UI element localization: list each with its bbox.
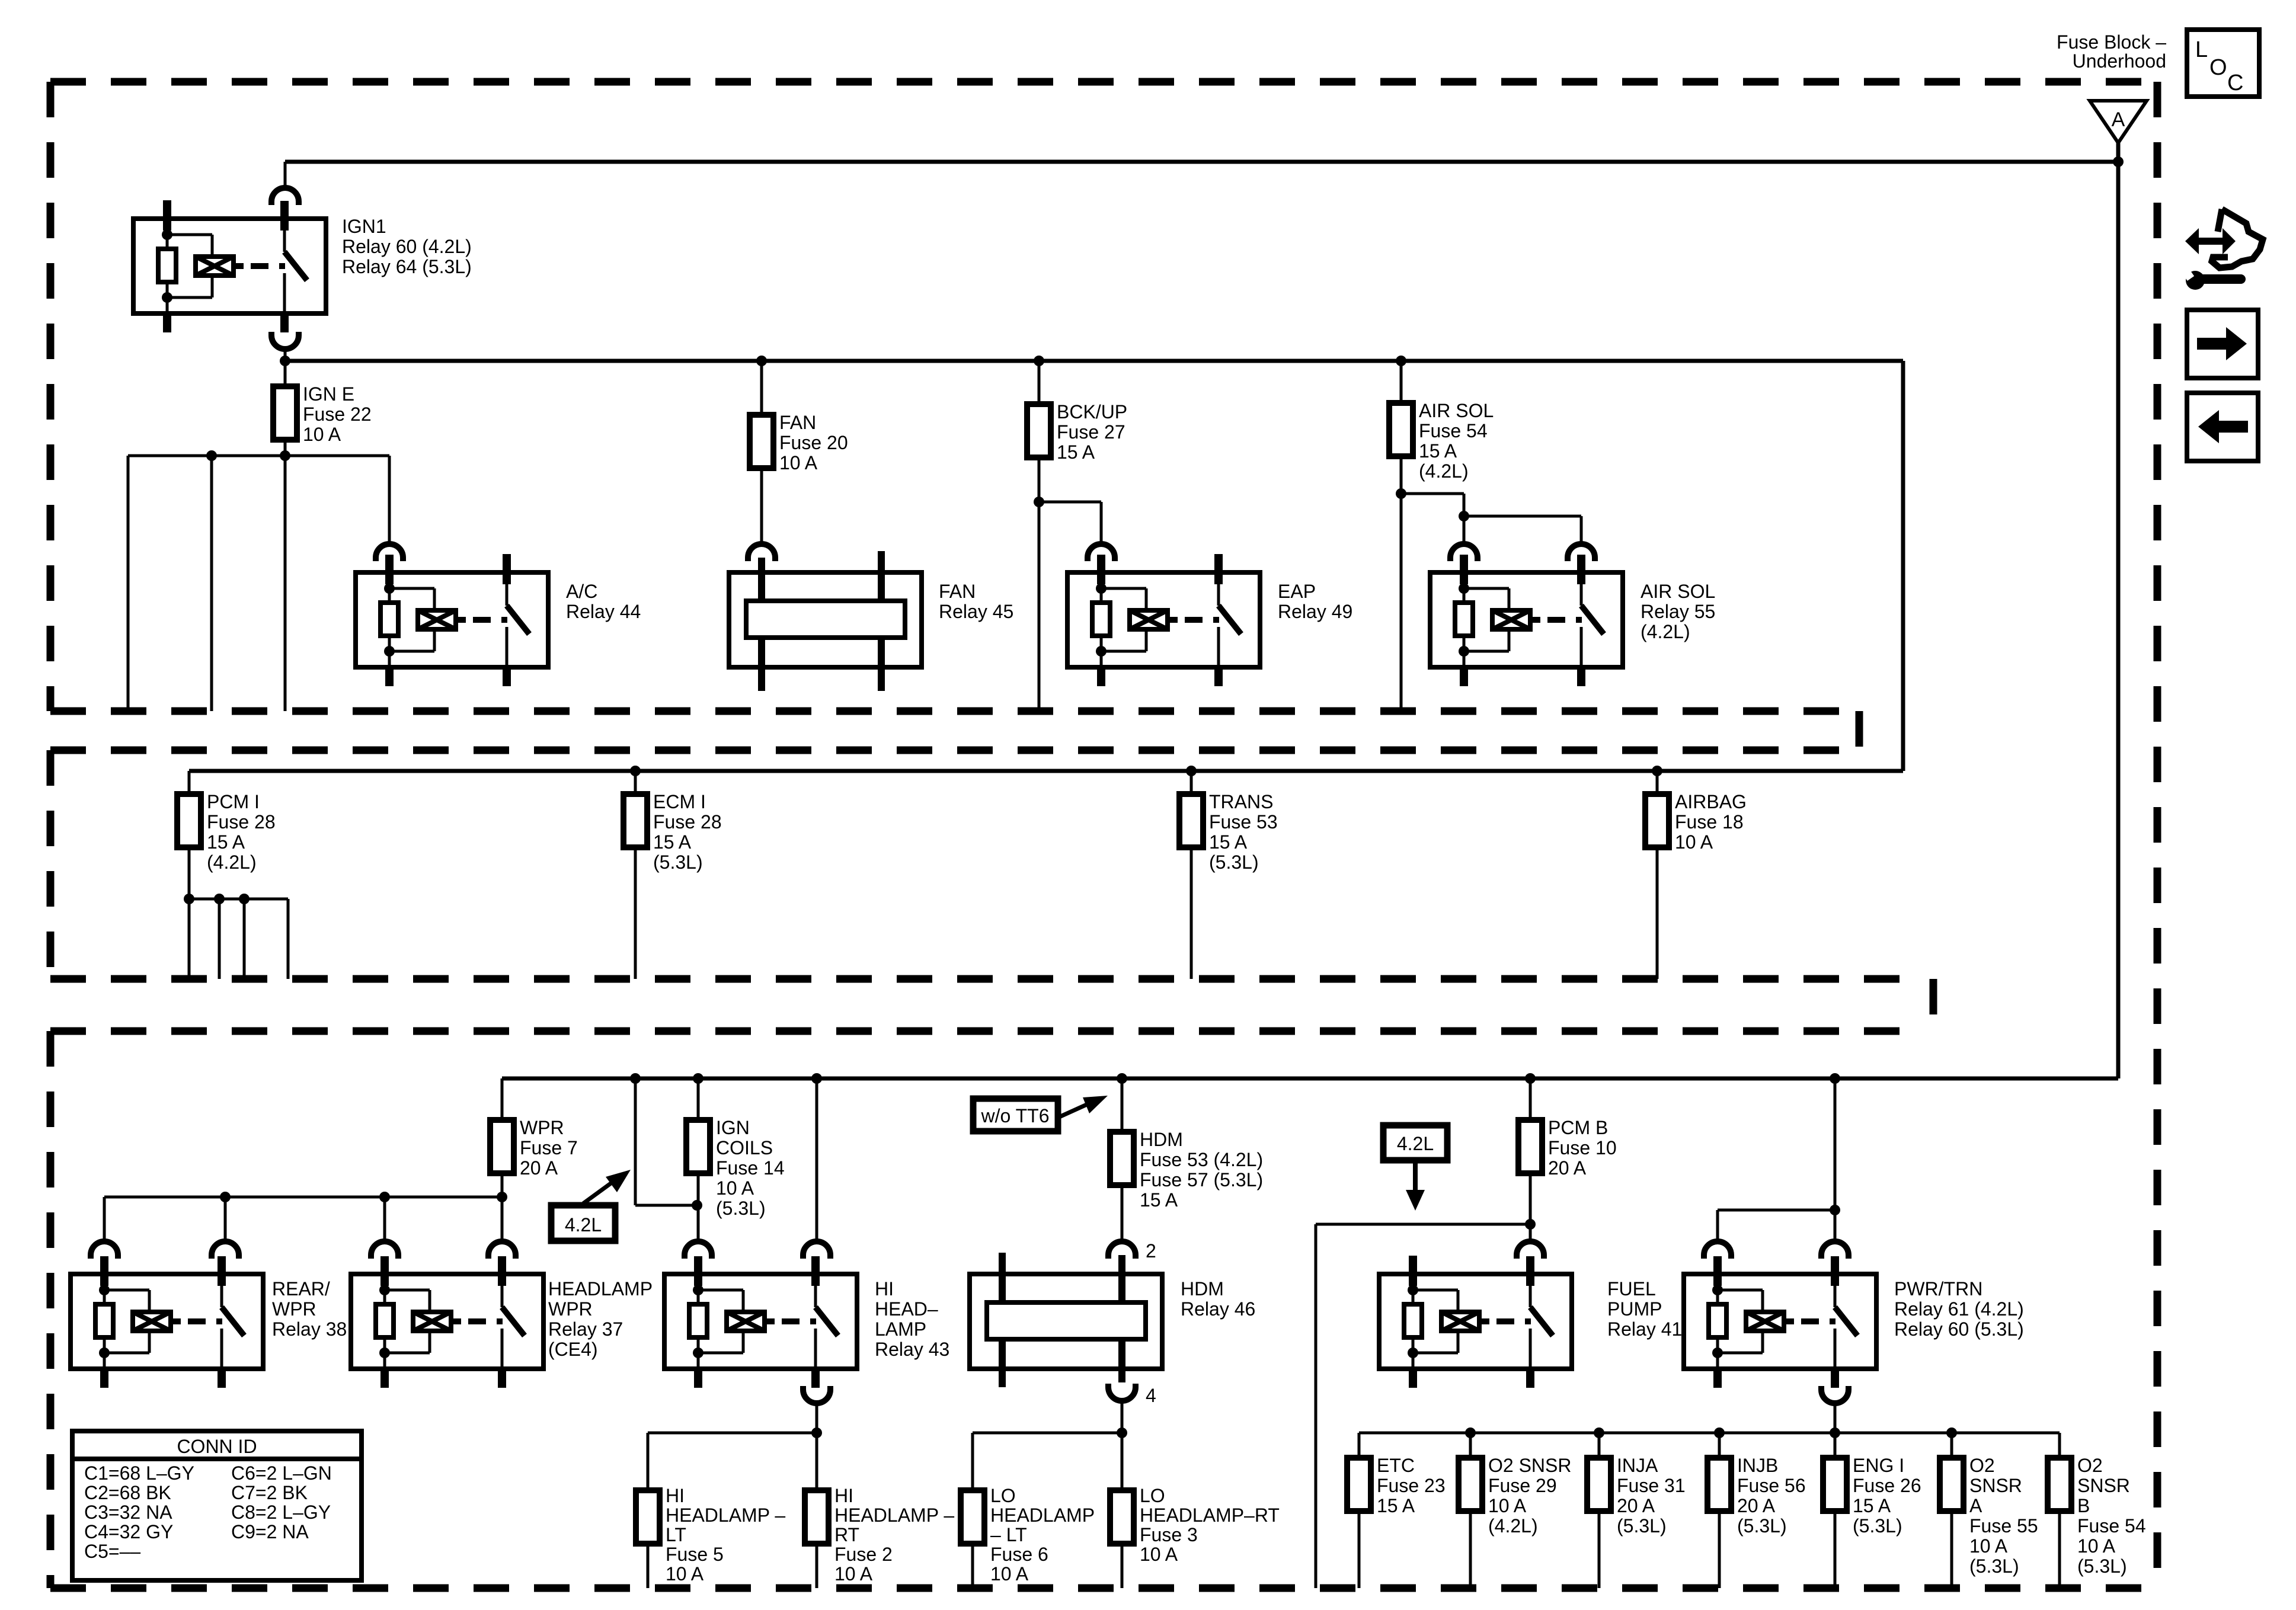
wire branch to AIR SOL relay — [1401, 494, 1464, 544]
svg-text:Fuse 7: Fuse 7 — [520, 1137, 578, 1158]
svg-text:10 A: 10 A — [1140, 1544, 1178, 1565]
wire bus1 — [285, 160, 2118, 164]
label IGN1 — [342, 216, 472, 277]
connector FUEL PUMP switch — [1517, 1241, 1544, 1259]
junction bus2b AIRBAG — [1652, 766, 1662, 776]
connector HEADLAMP WPR switch — [488, 1241, 516, 1259]
wire bus2b to ECM I fuse — [634, 771, 637, 794]
label AIR SOL Fuse 54 — [1419, 400, 1494, 482]
wire PWR/TRN output to ETC bus — [1834, 1403, 1837, 1458]
svg-text:Fuse 5: Fuse 5 — [666, 1544, 724, 1565]
wire bus2 to FAN fuse — [760, 361, 763, 415]
svg-text:(4.2L): (4.2L) — [207, 852, 257, 873]
svg-text:BCK/UP: BCK/UP — [1057, 401, 1127, 422]
wire bus2 to BCK/UP fuse — [1038, 361, 1041, 404]
svg-text:RT: RT — [834, 1524, 859, 1545]
svg-text:C6=2 L–GN: C6=2 L–GN — [231, 1462, 332, 1484]
svg-text:SNSR: SNSR — [2077, 1475, 2130, 1496]
svg-text:Fuse 28: Fuse 28 — [653, 811, 722, 833]
svg-text:LT: LT — [666, 1524, 686, 1545]
svg-text:C1=68 L–GY: C1=68 L–GY — [84, 1462, 194, 1484]
junction AIR SOL branch — [1396, 488, 1406, 499]
wire WPR fuse to relays — [501, 1173, 504, 1241]
junction bus2b TRANS — [1186, 766, 1197, 776]
svg-text:Relay 64 (5.3L): Relay 64 (5.3L) — [342, 256, 472, 277]
wire to AIR SOL switch pin — [1464, 516, 1581, 544]
fuse HI HEADLAMP-RT Fuse 2 — [805, 1490, 829, 1544]
svg-text:20 A: 20 A — [520, 1157, 558, 1179]
relay FUEL PUMP Relay 41 — [1379, 1256, 1572, 1388]
junction bus2b ECM I — [630, 766, 641, 776]
wire ETC bus to INJA Fuse 31 — [1598, 1433, 1601, 1458]
wire ENG I Fuse 26 output — [1834, 1511, 1837, 1588]
wire AIRBAG fuse output — [1656, 847, 1659, 979]
svg-text:FUEL: FUEL — [1607, 1278, 1656, 1299]
junction bus1/A-wire — [2113, 156, 2124, 167]
wire Fuse 2 output — [816, 1544, 818, 1588]
wire PCM B fuse to relay — [1529, 1173, 1532, 1241]
svg-text:C2=68 BK: C2=68 BK — [84, 1482, 171, 1503]
svg-text:20 A: 20 A — [1737, 1495, 1776, 1516]
connector IGN1 switch bottom — [271, 332, 299, 349]
connector HI HEADLAMP switch bottom — [803, 1386, 830, 1403]
relay REAR/WPR Relay 38 — [71, 1256, 263, 1388]
wire bus2b to AIRBAG fuse — [1656, 771, 1659, 794]
section2-section3 border cap — [1930, 979, 1937, 1031]
fuse block section 1 dashed border — [50, 82, 2157, 711]
label LO HEADLAMP-LT Fuse 6 — [990, 1485, 1095, 1585]
wire bus2b to TRANS fuse — [1190, 771, 1193, 794]
svg-text:Fuse 18: Fuse 18 — [1675, 811, 1744, 833]
wire ETC bus to O2 SNSR Fuse 29 — [1469, 1433, 1472, 1458]
fuse O2 SNSR Fuse 29 — [1459, 1458, 1482, 1511]
svg-text:(CE4): (CE4) — [548, 1339, 598, 1360]
svg-text:O: O — [2209, 55, 2227, 80]
junction PCM I x412 — [239, 894, 250, 904]
wire ETC bus to O2 SNSR — [1950, 1433, 1953, 1458]
junction ETC bus INJA Fuse 31 — [1594, 1427, 1604, 1438]
svg-text:AIRBAG: AIRBAG — [1675, 791, 1747, 812]
junction ETC bus INJB Fuse 56 — [1714, 1427, 1725, 1438]
svg-text:15 A: 15 A — [1209, 831, 1248, 853]
svg-text:LAMP: LAMP — [875, 1318, 926, 1340]
connector HI HEADLAMP coil — [685, 1241, 712, 1259]
svg-text:PUMP: PUMP — [1607, 1298, 1662, 1320]
svg-text:IGN E: IGN E — [303, 383, 354, 405]
label O2 SNSR — [1969, 1455, 2038, 1577]
svg-text:C4=32 GY: C4=32 GY — [84, 1521, 173, 1542]
svg-text:10 A: 10 A — [303, 424, 341, 445]
label HDM Relay 46 — [1181, 1278, 1255, 1320]
svg-text:– LT: – LT — [990, 1524, 1027, 1545]
wire 4.2L coil feed — [635, 1078, 698, 1205]
wire bus3 to IGN COILS fuse — [697, 1078, 700, 1120]
svg-text:4.2L: 4.2L — [565, 1214, 602, 1235]
relay FAN Relay 45 — [729, 551, 922, 691]
svg-text:IGN: IGN — [716, 1117, 750, 1138]
svg-text:ETC: ETC — [1377, 1455, 1415, 1476]
svg-text:10 A: 10 A — [1969, 1535, 2008, 1557]
wire bus1 drop to IGN1 relay — [284, 162, 287, 188]
svg-text:L: L — [2195, 37, 2208, 62]
wire stub x357 — [210, 456, 213, 711]
fuse O2 SNSR — [2048, 1458, 2071, 1511]
svg-text:Relay 55: Relay 55 — [1641, 601, 1715, 622]
svg-text:C: C — [2227, 71, 2243, 95]
fuse BCK/UP Fuse 27 — [1027, 404, 1051, 457]
svg-text:15 A: 15 A — [653, 831, 692, 853]
fuse TRANS Fuse 53 — [1179, 794, 1203, 847]
wire HDM output — [1121, 1403, 1124, 1490]
svg-text:O2 SNSR: O2 SNSR — [1488, 1455, 1571, 1476]
wire stub x370 — [218, 899, 221, 979]
label BCK/UP Fuse 27 — [1057, 401, 1127, 463]
relay PWR/TRN Relay 61/60 — [1684, 1256, 1876, 1388]
svg-text:15 A: 15 A — [1853, 1495, 1891, 1516]
svg-text:TRANS: TRANS — [1209, 791, 1273, 812]
wire bus2b — [189, 769, 1903, 773]
svg-text:HEADLAMP –: HEADLAMP – — [666, 1505, 785, 1526]
svg-text:WPR: WPR — [520, 1117, 564, 1138]
fuse IGN COILS Fuse 14 — [686, 1120, 710, 1173]
svg-text:Fuse 14: Fuse 14 — [716, 1157, 785, 1179]
svg-text:COILS: COILS — [716, 1137, 773, 1158]
wire ETC bus left drop — [1358, 1433, 1361, 1458]
svg-text:C8=2 L–GY: C8=2 L–GY — [231, 1502, 331, 1523]
svg-text:HI: HI — [666, 1485, 685, 1506]
svg-text:B: B — [2077, 1495, 2090, 1516]
wire HI headlamp branch — [648, 1433, 817, 1490]
svg-text:Underhood: Underhood — [2073, 50, 2166, 72]
junction ETC bus O2 SNSR Fuse 29 — [1465, 1427, 1476, 1438]
svg-text:Fuse Block –: Fuse Block – — [2057, 31, 2166, 53]
svg-text:20 A: 20 A — [1617, 1495, 1655, 1516]
left arrow box — [2187, 393, 2258, 461]
label ECM I Fuse 28 — [653, 791, 722, 873]
connector PWR/TRN switch bottom — [1821, 1386, 1849, 1403]
svg-text:SNSR: SNSR — [1969, 1475, 2022, 1496]
svg-text:(5.3L): (5.3L) — [1737, 1515, 1787, 1537]
svg-text:(4.2L): (4.2L) — [1488, 1515, 1538, 1537]
fuse O2 SNSR — [1940, 1458, 1964, 1511]
junction wiper feed x380 — [220, 1192, 231, 1202]
svg-text:Fuse 6: Fuse 6 — [990, 1544, 1048, 1565]
wire TRANS fuse output — [1190, 847, 1193, 979]
svg-text:10 A: 10 A — [716, 1177, 754, 1199]
label REAR/WPR Relay 38 — [272, 1278, 347, 1340]
fuse AIR SOL Fuse 54 — [1389, 403, 1413, 456]
wire IGN E fuse output — [284, 440, 287, 711]
svg-text:(5.3L): (5.3L) — [2077, 1555, 2127, 1577]
svg-text:PCM B: PCM B — [1548, 1117, 1608, 1138]
svg-text:FAN: FAN — [939, 581, 976, 602]
label AIRBAG Fuse 18 — [1675, 791, 1747, 853]
wire bus3 — [502, 1077, 2118, 1081]
wire Fuse 6 output — [971, 1544, 974, 1588]
svg-text:Relay 61 (4.2L): Relay 61 (4.2L) — [1894, 1298, 2024, 1320]
wire Fuse 5 output — [647, 1544, 650, 1588]
junction AIR SOL relay pins — [1459, 511, 1469, 521]
svg-text:(5.3L): (5.3L) — [1209, 852, 1259, 873]
svg-text:15 A: 15 A — [207, 831, 245, 853]
svg-text:(5.3L): (5.3L) — [1617, 1515, 1667, 1537]
wire IGN COILS to HI HEADLAMP coil — [697, 1173, 700, 1241]
right arrow box — [2187, 310, 2258, 378]
wire bus3 to PWR/TRN — [1834, 1078, 1837, 1241]
wire ECM I fuse output — [634, 847, 637, 979]
svg-text:10 A: 10 A — [990, 1563, 1029, 1585]
fuse ENG I Fuse 26 — [1823, 1458, 1847, 1511]
wire INJA Fuse 31 output — [1598, 1511, 1601, 1588]
svg-text:Fuse 53: Fuse 53 — [1209, 811, 1278, 833]
wire bus3 to PCM B fuse — [1529, 1078, 1532, 1120]
label INJA Fuse 31 — [1617, 1455, 1686, 1537]
fuse LO HEADLAMP-LT Fuse 6 — [961, 1490, 984, 1544]
svg-text:Fuse 31: Fuse 31 — [1617, 1475, 1686, 1496]
relay HDM Relay 46 — [970, 1253, 1162, 1387]
label INJB Fuse 56 — [1737, 1455, 1806, 1537]
label HI HEADLAMP-RT Fuse 2 — [834, 1485, 954, 1585]
svg-text:Relay 60 (4.2L): Relay 60 (4.2L) — [342, 236, 472, 257]
svg-text:Fuse 3: Fuse 3 — [1140, 1524, 1198, 1545]
connector AIR SOL relay switch — [1568, 544, 1595, 561]
svg-text:LO: LO — [1140, 1485, 1165, 1506]
junction PWR/TRN branch — [1830, 1205, 1840, 1215]
junction bus3 4.2L wire — [630, 1073, 641, 1084]
label LO HEADLAMP-RT Fuse 3 — [1140, 1485, 1280, 1565]
relay EAP Relay 49 — [1067, 554, 1260, 686]
wire to REAR/WPR switch — [224, 1197, 227, 1241]
wire O2 SNSR output — [1950, 1511, 1953, 1588]
svg-text:4: 4 — [1146, 1385, 1156, 1406]
connector AIR SOL relay coil — [1450, 544, 1478, 561]
fuse INJA Fuse 31 — [1587, 1458, 1611, 1511]
connector HDM pin 2 — [1108, 1240, 1156, 1262]
label IGN COILS Fuse 14 — [716, 1117, 785, 1219]
fuse HDM Fuse 53/57 — [1110, 1132, 1134, 1185]
label TRANS Fuse 53 — [1209, 791, 1278, 873]
svg-text:Fuse 55: Fuse 55 — [1969, 1515, 2038, 1537]
wire FAN fuse to relay — [760, 468, 763, 544]
label FAN Fuse 20 — [779, 412, 848, 473]
junction bus2 AIR SOL — [1396, 356, 1406, 366]
svg-text:(4.2L): (4.2L) — [1641, 621, 1690, 642]
connector PWR/TRN switch — [1821, 1241, 1849, 1259]
svg-text:Fuse 53 (4.2L): Fuse 53 (4.2L) — [1140, 1149, 1263, 1170]
svg-text:Fuse 54: Fuse 54 — [2077, 1515, 2146, 1537]
wire to REAR/WPR coil — [103, 1197, 106, 1241]
svg-text:AIR SOL: AIR SOL — [1641, 581, 1715, 602]
wire ETC bus — [1359, 1432, 2060, 1435]
svg-text:Relay 38: Relay 38 — [272, 1318, 347, 1340]
svg-text:A: A — [1969, 1495, 1982, 1516]
wire bus3 to WPR fuse — [501, 1078, 504, 1120]
junction HI headlamp fuses — [811, 1427, 822, 1438]
relay HEADLAMP WPR Relay 37 — [351, 1256, 543, 1388]
svg-text:2: 2 — [1146, 1240, 1156, 1262]
fuse PCM B Fuse 10 — [1518, 1120, 1542, 1173]
svg-text:HI: HI — [875, 1278, 894, 1299]
connector IGN1 switch top — [271, 188, 299, 205]
svg-text:Fuse 2: Fuse 2 — [834, 1544, 893, 1565]
svg-text:Relay 46: Relay 46 — [1181, 1298, 1255, 1320]
label PCM B Fuse 10 — [1548, 1117, 1617, 1179]
svg-text:C7=2 BK: C7=2 BK — [231, 1482, 308, 1503]
svg-text:HI: HI — [834, 1485, 853, 1506]
relay AIR SOL Relay 55 — [1430, 555, 1623, 686]
svg-text:10 A: 10 A — [1675, 831, 1713, 853]
svg-text:Relay 41: Relay 41 — [1607, 1318, 1682, 1340]
svg-text:Fuse 27: Fuse 27 — [1057, 421, 1125, 443]
wire from A triangle down right side — [2116, 143, 2121, 1078]
fuse block bottom dashed border — [50, 1585, 2157, 1592]
svg-text:10 A: 10 A — [666, 1563, 704, 1585]
connector HI HEADLAMP switch — [803, 1241, 830, 1259]
fuse block section 3 dashed border — [50, 1031, 1923, 1588]
connector REAR/WPR coil — [91, 1241, 118, 1259]
label Fuse Block - Underhood — [2057, 31, 2166, 72]
svg-text:w/o TT6: w/o TT6 — [981, 1105, 1050, 1126]
wire ETC Fuse 23 output — [1358, 1511, 1361, 1588]
wire Fuse 3 output — [1121, 1544, 1124, 1588]
label HDM Fuse 53/57 — [1140, 1129, 1263, 1211]
label O2 SNSR — [2077, 1455, 2146, 1577]
label 4.2L callout 2 — [1383, 1125, 1447, 1211]
junction ETC bus PWR/TRN — [1830, 1427, 1840, 1438]
wire O2 SNSR output — [2058, 1511, 2061, 1588]
svg-text:20 A: 20 A — [1548, 1157, 1587, 1179]
svg-text:A/C: A/C — [566, 581, 597, 602]
label O2 SNSR Fuse 29 — [1488, 1455, 1571, 1537]
connector A/C relay coil — [376, 544, 403, 561]
wire wiper feed line — [104, 1196, 502, 1199]
svg-text:Relay 37: Relay 37 — [548, 1318, 623, 1340]
wire O2 SNSR Fuse 29 output — [1469, 1511, 1472, 1588]
svg-text:O2: O2 — [1969, 1455, 1995, 1476]
label FUEL PUMP Relay 41 — [1607, 1278, 1682, 1340]
svg-text:HDM: HDM — [1140, 1129, 1183, 1150]
svg-text:Fuse 57 (5.3L): Fuse 57 (5.3L) — [1140, 1169, 1263, 1190]
connector HEADLAMP WPR coil — [371, 1241, 398, 1259]
svg-text:Fuse 28: Fuse 28 — [207, 811, 276, 833]
svg-text:(5.3L): (5.3L) — [1969, 1555, 2019, 1577]
junction bus3 HDM — [1117, 1073, 1127, 1084]
junction bus3 PWR/TRN — [1830, 1073, 1840, 1084]
wire bus3 to HDM fuse — [1121, 1078, 1124, 1132]
svg-text:INJB: INJB — [1737, 1455, 1778, 1476]
relay IGN1 Relay 60/64 — [133, 200, 326, 332]
svg-text:Fuse 22: Fuse 22 — [303, 404, 372, 425]
svg-text:15 A: 15 A — [1057, 441, 1095, 463]
junction bus3 PCM B — [1525, 1073, 1536, 1084]
svg-text:EAP: EAP — [1278, 581, 1316, 602]
wire to A/C relay — [388, 456, 391, 544]
junction PCM I x319 — [184, 894, 194, 904]
svg-text:(5.3L): (5.3L) — [1853, 1515, 1902, 1537]
svg-text:HDM: HDM — [1181, 1278, 1224, 1299]
fuse PCM I Fuse 28 — [177, 794, 201, 847]
label WPR Fuse 7 — [520, 1117, 578, 1179]
junction ETC bus O2 SNSR — [1946, 1427, 1957, 1438]
svg-text:Fuse 20: Fuse 20 — [779, 432, 848, 453]
fuse ETC Fuse 23 — [1347, 1458, 1371, 1511]
junction bus3 HI HEADLAMP switch — [811, 1073, 822, 1084]
svg-text:WPR: WPR — [548, 1298, 593, 1320]
fuse block right dashed border — [2154, 82, 2161, 1588]
junction y769 x357 — [206, 450, 217, 461]
wire LO headlamp branch — [973, 1433, 1122, 1490]
wire INJB Fuse 56 output — [1718, 1511, 1721, 1588]
wire branch to EAP relay — [1039, 501, 1101, 504]
label AIR SOL Relay 55 — [1641, 581, 1715, 642]
svg-text:Fuse 56: Fuse 56 — [1737, 1475, 1806, 1496]
label 4.2L callout box — [551, 1170, 631, 1241]
wire IGN1 to bus2 — [284, 349, 287, 386]
relay A/C Relay 44 — [356, 554, 548, 686]
junction wiper feed x649 — [379, 1192, 390, 1202]
svg-text:C5=––: C5=–– — [84, 1541, 140, 1562]
svg-text:WPR: WPR — [272, 1298, 316, 1320]
fuse LO HEADLAMP-RT Fuse 3 — [1110, 1490, 1134, 1544]
wire stub x486 — [287, 899, 290, 979]
svg-text:C9=2 NA: C9=2 NA — [231, 1521, 309, 1542]
wire HDM fuse to relay — [1121, 1185, 1124, 1241]
fuse FAN Fuse 20 — [750, 415, 773, 468]
svg-text:PWR/TRN: PWR/TRN — [1894, 1278, 1982, 1299]
LOC reference box — [2187, 30, 2259, 97]
fuse INJB Fuse 56 — [1707, 1458, 1731, 1511]
label A/C Relay 44 — [566, 581, 641, 622]
svg-text:REAR/: REAR/ — [272, 1278, 330, 1299]
wire ETC bus right drop — [2058, 1433, 2061, 1458]
svg-text:15 A: 15 A — [1419, 440, 1457, 462]
svg-text:Fuse 10: Fuse 10 — [1548, 1137, 1617, 1158]
svg-text:Fuse 26: Fuse 26 — [1853, 1475, 1921, 1496]
fuse block section 2 dashed border — [50, 750, 1923, 979]
svg-text:Relay 43: Relay 43 — [875, 1339, 949, 1360]
wire stub x412 — [243, 899, 246, 979]
junction LO headlamp fuses — [1117, 1427, 1127, 1438]
junction bus2 at IGN E — [280, 356, 290, 366]
fuse HI HEADLAMP-LT Fuse 5 — [636, 1490, 660, 1544]
wire branch left at y769 — [128, 454, 389, 457]
junction PCM I x370 — [214, 894, 225, 904]
svg-text:LO: LO — [990, 1485, 1016, 1506]
svg-text:HEAD–: HEAD– — [875, 1298, 938, 1320]
wire stub x216 — [127, 456, 130, 711]
junction BCK/UP branch — [1034, 497, 1044, 507]
wire AIR SOL fuse output — [1400, 456, 1403, 711]
connector EAP relay coil — [1088, 544, 1115, 561]
label PWR/TRN Relay 61/60 — [1894, 1278, 2024, 1340]
svg-text:Relay 60 (5.3L): Relay 60 (5.3L) — [1894, 1318, 2024, 1340]
svg-text:10 A: 10 A — [2077, 1535, 2116, 1557]
wire HI HEADLAMP output — [816, 1403, 818, 1490]
fuse ECM I Fuse 28 — [623, 794, 647, 847]
svg-text:INJA: INJA — [1617, 1455, 1658, 1476]
svg-text:(5.3L): (5.3L) — [716, 1198, 766, 1219]
label IGN E Fuse 22 — [303, 383, 372, 445]
svg-text:10 A: 10 A — [834, 1563, 873, 1585]
wire branch to PWR/TRN coil — [1718, 1210, 1835, 1241]
fuse AIRBAG Fuse 18 — [1645, 794, 1669, 847]
wire to HEADLAMP WPR coil — [383, 1197, 386, 1241]
fuse IGN E Fuse 22 — [273, 386, 297, 440]
svg-text:FAN: FAN — [779, 412, 816, 433]
svg-text:Fuse 23: Fuse 23 — [1377, 1475, 1446, 1496]
svg-text:(4.2L): (4.2L) — [1419, 460, 1469, 482]
junction PCM B 4.2L branch — [1525, 1219, 1536, 1230]
